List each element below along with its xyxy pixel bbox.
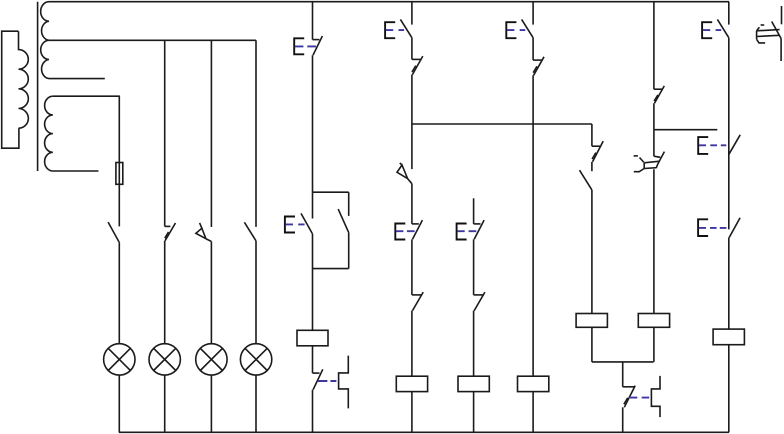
contact K1 (NO) rung5 right parallel (338, 192, 349, 268)
wire rung9 from junction (591, 124, 593, 146)
switch (NO) rung9 (580, 170, 592, 190)
wire lamp branch 1 lower (118, 242, 120, 344)
wire below coil K1 (312, 346, 314, 373)
wire lamp branch 3 lower (210, 242, 212, 344)
relay coil K5 (576, 314, 607, 328)
limit switch E6 (NO) rung8 (506, 19, 533, 38)
limit switch E1 (NC) rung5 (294, 36, 322, 55)
wire rung5 top (312, 2, 314, 40)
transformer T1 secondary winding upper (41, 2, 49, 79)
wire rung9 to coil (591, 190, 593, 314)
wire lamp 4 to bus (255, 375, 257, 432)
wire rung8 to bus (532, 392, 534, 433)
wire rung12 top (728, 2, 730, 25)
wire rung9 (591, 162, 593, 171)
lamp H1 (104, 344, 135, 375)
transformer T1 core (37, 2, 39, 171)
wire rung5 to bus (312, 390, 314, 433)
wire rung8 (532, 38, 534, 60)
limit switch E7 (horizontal actuator) (698, 135, 740, 155)
relay coil K1 (297, 330, 328, 346)
contact (NC) rung8 (533, 57, 544, 76)
wire rung7 to bus (473, 392, 475, 433)
limit switch E5 (NC) rung7 (457, 220, 485, 239)
wire rung10 to coil (653, 169, 655, 313)
relay coil K2 (396, 376, 427, 391)
wire rung6 to junction (411, 75, 413, 170)
wire rung7 stub (473, 198, 475, 224)
switch S4 (NO) lamp branch 4 (244, 222, 256, 240)
wire rung6 to bus (411, 392, 413, 433)
wire lamp branch 3 upper (210, 40, 212, 227)
contact (NC) rung7 (474, 292, 485, 311)
wire parallel bottom (313, 268, 349, 270)
limit switch E8 (NO) rung12 (702, 19, 729, 38)
wire below coil K5 (591, 327, 593, 362)
wire lamp 1 to bus (118, 375, 120, 432)
lamp H2 (149, 344, 180, 375)
relay coil K4 (518, 376, 549, 391)
wire lamp branch 1 upper (118, 96, 120, 226)
transformer T1 secondary winding lower (45, 96, 53, 171)
wire rung12 (728, 38, 730, 230)
lamp H3 (196, 344, 227, 375)
wire rung6 (411, 184, 413, 224)
switch S2 (NC) lamp branch 2 (165, 223, 176, 241)
wire rung10 (653, 130, 655, 157)
relay coil K7 (713, 329, 744, 345)
wire rung11 from merge (622, 362, 624, 387)
wire rung10 (653, 103, 655, 130)
wire rung5 mid (312, 55, 314, 192)
wire lamp feed from upper secondary tap (49, 39, 256, 41)
contact (NC) rung9 (592, 141, 603, 162)
wire cross link rung6-rung9 (412, 123, 592, 125)
wire lamp 2 to bus (164, 375, 166, 432)
wire rung13 stub bottom (780, 39, 782, 62)
wire rung11 to bus (622, 407, 624, 432)
limit switch E4 (NC) rung6 (395, 220, 422, 239)
switch (NO arrow) rung6 (397, 163, 412, 184)
lamp H4 (240, 344, 271, 375)
switch S1 (NO) lamp branch 1 (108, 222, 119, 242)
wire lamp 3 to bus (210, 375, 212, 432)
latched switch rung13 (757, 22, 782, 43)
limit switch E3 (NO) rung6 (385, 19, 412, 38)
contact (NC) rung6 lower (412, 292, 423, 311)
wire rung10 top (653, 2, 655, 90)
relay coil K3 (458, 376, 489, 391)
wire rung12 (728, 238, 730, 330)
contact (NO old-style jog) linked to K1 (339, 356, 349, 409)
wire rung6 top (411, 2, 413, 25)
wire rung8 top (532, 2, 534, 25)
contact (NC linked) rung11 (623, 386, 650, 408)
contact (NC) rung6 upper (412, 56, 423, 75)
wire rung12 to bus (728, 345, 730, 433)
wire rung8 to coil (532, 75, 534, 376)
contact (NO old-style jog) rung11 (651, 376, 660, 417)
wire top bus L+ (49, 1, 729, 3)
wire merge rung9-rung10 (592, 361, 654, 363)
transformer T1 primary winding (2, 31, 29, 148)
wire lamp branch 4 lower (255, 241, 257, 344)
wire rung6 (411, 38, 413, 60)
switch S3 (NO arrow) lamp branch 3 (196, 223, 212, 242)
relay coil K6 (638, 314, 669, 328)
contact (NC) rung10 (654, 86, 664, 103)
wire rung7 (473, 239, 475, 295)
fuse F1 (116, 163, 123, 185)
wire rung6 (411, 239, 413, 295)
latched contact rung10 (634, 152, 665, 172)
wire lamp branch 4 upper (255, 40, 257, 227)
wire parallel top (313, 191, 349, 193)
wire stub to E7 (654, 129, 717, 131)
wire lamp branch 2 upper (164, 40, 166, 226)
wire lamp branch 2 lower (164, 241, 166, 344)
limit switch E9 (horizontal actuator) rung12 (698, 218, 740, 238)
wire bottom bus L- (119, 431, 729, 433)
wire lower secondary top to fuse branch (53, 95, 120, 97)
limit switch E2 (NO) rung5 left (285, 192, 313, 234)
wire rung6 to coil (411, 311, 413, 377)
wire stub lower secondary bottom (53, 170, 99, 172)
wire below coil K6 (653, 327, 655, 362)
contact (NC linked) below K1 (313, 369, 337, 389)
wire stub from upper secondary bottom (49, 78, 105, 80)
wire rung7 to coil (473, 311, 475, 377)
wire rung5 lower (312, 234, 314, 330)
wire rung13 stub top (781, 6, 783, 24)
